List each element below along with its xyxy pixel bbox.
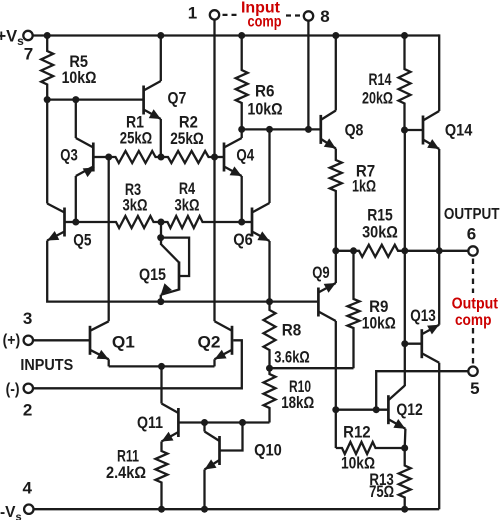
svg-text:Q10: Q10 xyxy=(254,441,282,460)
junction Q6 collector tap xyxy=(266,126,273,133)
junction R7/Q9 emitter/output wire xyxy=(332,247,339,254)
svg-text:1kΩ: 1kΩ xyxy=(352,177,376,196)
junction Q14-Q13 emitters/output xyxy=(436,247,443,254)
transistor Q9 xyxy=(318,283,335,321)
wire pin5 to Q12 base xyxy=(376,371,468,410)
wire Q7 base run xyxy=(47,98,143,100)
transistor Q5 xyxy=(47,204,64,241)
resistor R14 xyxy=(399,36,411,131)
node input-comp terminal pin 8 xyxy=(304,11,313,20)
junction R8/R10/R9 wire xyxy=(266,365,273,372)
transistor Q13 xyxy=(422,325,439,363)
wire Q10 collector stub xyxy=(203,423,205,432)
junction R6/Q4 collector xyxy=(238,126,245,133)
resistor R4 xyxy=(161,216,242,228)
junction Q3 collector tap xyxy=(72,96,79,103)
svg-text:8: 8 xyxy=(320,7,329,26)
svg-text:INPUTS: INPUTS xyxy=(20,357,73,374)
transistor Q15 xyxy=(161,245,179,295)
svg-text:Q9: Q9 xyxy=(312,263,329,282)
svg-text:comp: comp xyxy=(455,312,492,329)
svg-text:(-): (-) xyxy=(6,381,20,398)
svg-text:3kΩ: 3kΩ xyxy=(123,196,148,215)
resistor R9 xyxy=(348,251,360,368)
svg-text:Q8: Q8 xyxy=(345,121,364,140)
svg-text:10kΩ: 10kΩ xyxy=(247,100,282,119)
svg-text:Q15: Q15 xyxy=(139,265,166,284)
wire dashed input comp right xyxy=(286,14,301,16)
svg-text:2.4kΩ: 2.4kΩ xyxy=(106,463,146,482)
resistor R10 xyxy=(264,368,276,422)
wire Q3 collector up xyxy=(75,100,77,138)
wire dashed output comp upper xyxy=(472,259,474,294)
junction Q6 emitter/R8/rail xyxy=(266,298,273,305)
transistor Q4 xyxy=(224,138,242,176)
resistor R13 xyxy=(399,448,411,509)
svg-text:6: 6 xyxy=(467,225,476,244)
junction rail/R13 xyxy=(401,506,408,513)
junction Q3 base/R1/Q1 collector xyxy=(105,154,112,161)
wire (+) input to Q1 base xyxy=(34,339,90,341)
junction Q13 base xyxy=(401,340,408,347)
junction Q10 base loop/R10 wire xyxy=(239,419,246,426)
junction Q15 emitter/rail xyxy=(157,298,164,305)
wire Q12 base run xyxy=(336,409,389,411)
svg-text:Q13: Q13 xyxy=(410,306,436,325)
svg-text:25kΩ: 25kΩ xyxy=(120,129,152,148)
wire pin1 to Q2 collector xyxy=(213,20,215,321)
junction rail/R5 xyxy=(44,32,51,39)
junction Q10 collector/Q11 base wire xyxy=(201,419,208,426)
wire Q8 collector to rail xyxy=(335,36,337,111)
wire Q14 emitter down to output node xyxy=(438,149,440,251)
svg-text:Q7: Q7 xyxy=(168,89,187,108)
node inverting input terminal xyxy=(24,384,33,393)
junction R14/Q14 base xyxy=(401,127,408,134)
wire Q6 collector up xyxy=(268,129,270,203)
svg-text:R6: R6 xyxy=(255,82,275,101)
wire Q4 collector up to R6 node xyxy=(241,129,243,138)
svg-text:Q11: Q11 xyxy=(137,413,163,432)
wire Q4 emitter down to Q6 base xyxy=(241,176,243,222)
svg-text:7: 7 xyxy=(24,45,33,64)
wire Q14 base stub xyxy=(405,129,424,131)
svg-text:Q2: Q2 xyxy=(198,333,221,352)
resistor R11 on Q11 emitter xyxy=(156,442,168,510)
wire Q14 collector drop from rail xyxy=(438,34,440,111)
wire dashed input comp left xyxy=(223,14,239,16)
resistor R5 xyxy=(41,36,53,100)
resistor R8 xyxy=(264,302,276,369)
resistor R12 xyxy=(336,442,405,454)
node OUTPUT terminal pin 6 xyxy=(468,246,477,255)
transistor Q8 xyxy=(321,111,336,149)
svg-text:Q14: Q14 xyxy=(445,121,473,140)
node noninverting input terminal xyxy=(24,336,33,345)
wire (-) input to Q2 base loop xyxy=(34,340,242,388)
svg-text:Q3: Q3 xyxy=(60,146,78,165)
transistor Q7 xyxy=(144,81,161,119)
transistor Q6 xyxy=(252,203,270,241)
wire Q2 emitter stub xyxy=(213,359,215,366)
junction R3/R4/Q15 xyxy=(158,219,165,226)
svg-text:OUTPUT: OUTPUT xyxy=(444,206,500,223)
junction rail/R14 xyxy=(401,32,408,39)
svg-text:25kΩ: 25kΩ xyxy=(170,129,204,148)
svg-text:R8: R8 xyxy=(282,321,302,340)
junction R5 bottom xyxy=(44,96,51,103)
transistor Q1 xyxy=(90,321,109,359)
junction Q9 collector/Q12 base xyxy=(332,406,339,413)
resistor R15 xyxy=(336,245,468,257)
node output-comp terminal pin 5 xyxy=(468,367,477,376)
wire Q10 base loop xyxy=(220,423,243,451)
junction pin1/R2/Q4 base xyxy=(211,154,218,161)
junction Q5 base/Q3 emitter xyxy=(72,219,79,226)
wire Q12 emitter stub xyxy=(404,429,407,448)
wire Q6 emitter down xyxy=(268,241,270,302)
svg-text:1: 1 xyxy=(188,4,197,23)
transistor Q2 xyxy=(215,321,233,359)
junction rail/Q7 collector xyxy=(157,32,164,39)
junction rail/Q10 emitter xyxy=(201,506,208,513)
wire Q13 emitter up to output node xyxy=(438,251,440,325)
transistor Q11 xyxy=(162,404,179,442)
resistor R3 xyxy=(76,216,161,228)
wire Q5 collector up xyxy=(46,100,48,204)
wire Q5 emitter down and rail to Q9 base xyxy=(47,241,317,302)
wire Q5 base stub xyxy=(65,221,76,223)
svg-text:10kΩ: 10kΩ xyxy=(62,68,97,87)
svg-text:3: 3 xyxy=(23,309,32,328)
wire Q15 collector stub xyxy=(160,238,162,245)
svg-text:5: 5 xyxy=(470,379,479,398)
svg-text:Q1: Q1 xyxy=(112,333,135,352)
svg-text:R14: R14 xyxy=(369,70,392,89)
svg-text:Output: Output xyxy=(452,295,498,312)
svg-text:(+): (+) xyxy=(3,332,21,349)
junction x405 line/output wire xyxy=(401,247,408,254)
node +Vs supply terminal pin 7 xyxy=(23,31,32,40)
wire Q1-Q2 emitter join xyxy=(109,365,215,367)
resistor R2 xyxy=(161,151,215,163)
resistor R6 xyxy=(236,36,248,130)
svg-text:18kΩ: 18kΩ xyxy=(281,393,314,412)
svg-text:2: 2 xyxy=(23,400,32,419)
junction emitter join/Q11 collector xyxy=(158,363,165,370)
wire bottom -Vs rail xyxy=(34,508,439,510)
node -Vs supply terminal pin 4 xyxy=(24,505,33,514)
transistor Q14 xyxy=(423,111,439,149)
transistor Q3 xyxy=(76,138,95,177)
svg-text:4: 4 xyxy=(22,479,32,498)
wire Q3 base stub xyxy=(93,156,108,158)
junction R4/Q4 emitter/Q6 base xyxy=(238,219,245,226)
transistor Q12 xyxy=(388,386,405,429)
wire Q13 collector down to -Vs rail xyxy=(438,363,440,510)
wire Q4 base stub xyxy=(215,156,225,158)
wire Q1 emitter stub xyxy=(108,359,110,366)
wire emitter node down to Q11 collector xyxy=(160,366,162,403)
junction rail/Q8 collector xyxy=(332,32,339,39)
wire Q1 collector up to R1 node xyxy=(108,157,110,321)
junction R1/R2/Q7 emitter xyxy=(158,154,165,161)
wire Q7 emitter to R1R2 node xyxy=(160,119,162,157)
svg-text:20kΩ: 20kΩ xyxy=(362,88,393,107)
wire Q9 collector down to Q12 base/R12 xyxy=(335,321,337,448)
svg-text:Q12: Q12 xyxy=(396,400,422,419)
wire Q13 base stub xyxy=(405,343,422,345)
wire x405 line R14 node to Q12 collector xyxy=(404,130,406,386)
wire R10 bottom to Q11 base xyxy=(178,421,269,423)
junction pin5 drop/Q12 base xyxy=(373,406,380,413)
wire Q15 emitter stub xyxy=(160,295,162,302)
svg-text:10kΩ: 10kΩ xyxy=(362,313,396,332)
transistor Q10 xyxy=(205,432,220,470)
wire Q9 emitter up xyxy=(335,251,337,283)
svg-text:75Ω: 75Ω xyxy=(369,482,394,501)
junction R12/Q12 emitter/R13 xyxy=(401,445,408,452)
svg-text:Q4: Q4 xyxy=(236,146,254,165)
junction Q15 base-collector tie xyxy=(157,234,164,241)
junction rail/R6 xyxy=(238,32,245,39)
wire Q15 base loop xyxy=(161,238,189,276)
junction pin8/Q8 base xyxy=(305,126,312,133)
svg-text:Q5: Q5 xyxy=(73,231,91,250)
wire Q3 emitter down xyxy=(75,176,77,222)
resistor R1 xyxy=(109,151,161,163)
wire R3R4 node to Q15 node xyxy=(160,222,162,238)
wire Q7 collector to rail xyxy=(160,36,162,82)
wire R9 bottom to R8/R10 node xyxy=(270,367,354,369)
svg-text:3.6kΩ: 3.6kΩ xyxy=(274,348,309,367)
resistor R7 xyxy=(330,149,342,251)
svg-text:comp: comp xyxy=(248,14,282,31)
node input-comp terminal pin 1 xyxy=(210,10,219,19)
junction R9 top xyxy=(350,247,357,254)
wire Q10 emitter down xyxy=(203,470,205,510)
svg-text:R12: R12 xyxy=(343,423,371,442)
wire Q6 base stub xyxy=(242,221,252,223)
wire Q8 base run xyxy=(242,128,321,130)
wire dashed output comp lower xyxy=(472,328,474,365)
svg-text:3kΩ: 3kΩ xyxy=(175,196,200,215)
svg-text:30kΩ: 30kΩ xyxy=(362,223,398,242)
svg-text:Q6: Q6 xyxy=(233,230,253,249)
wire top +Vs rail xyxy=(34,34,440,36)
junction rail/R11 xyxy=(158,506,165,513)
wire pin8 down to Q8 base xyxy=(307,22,309,130)
